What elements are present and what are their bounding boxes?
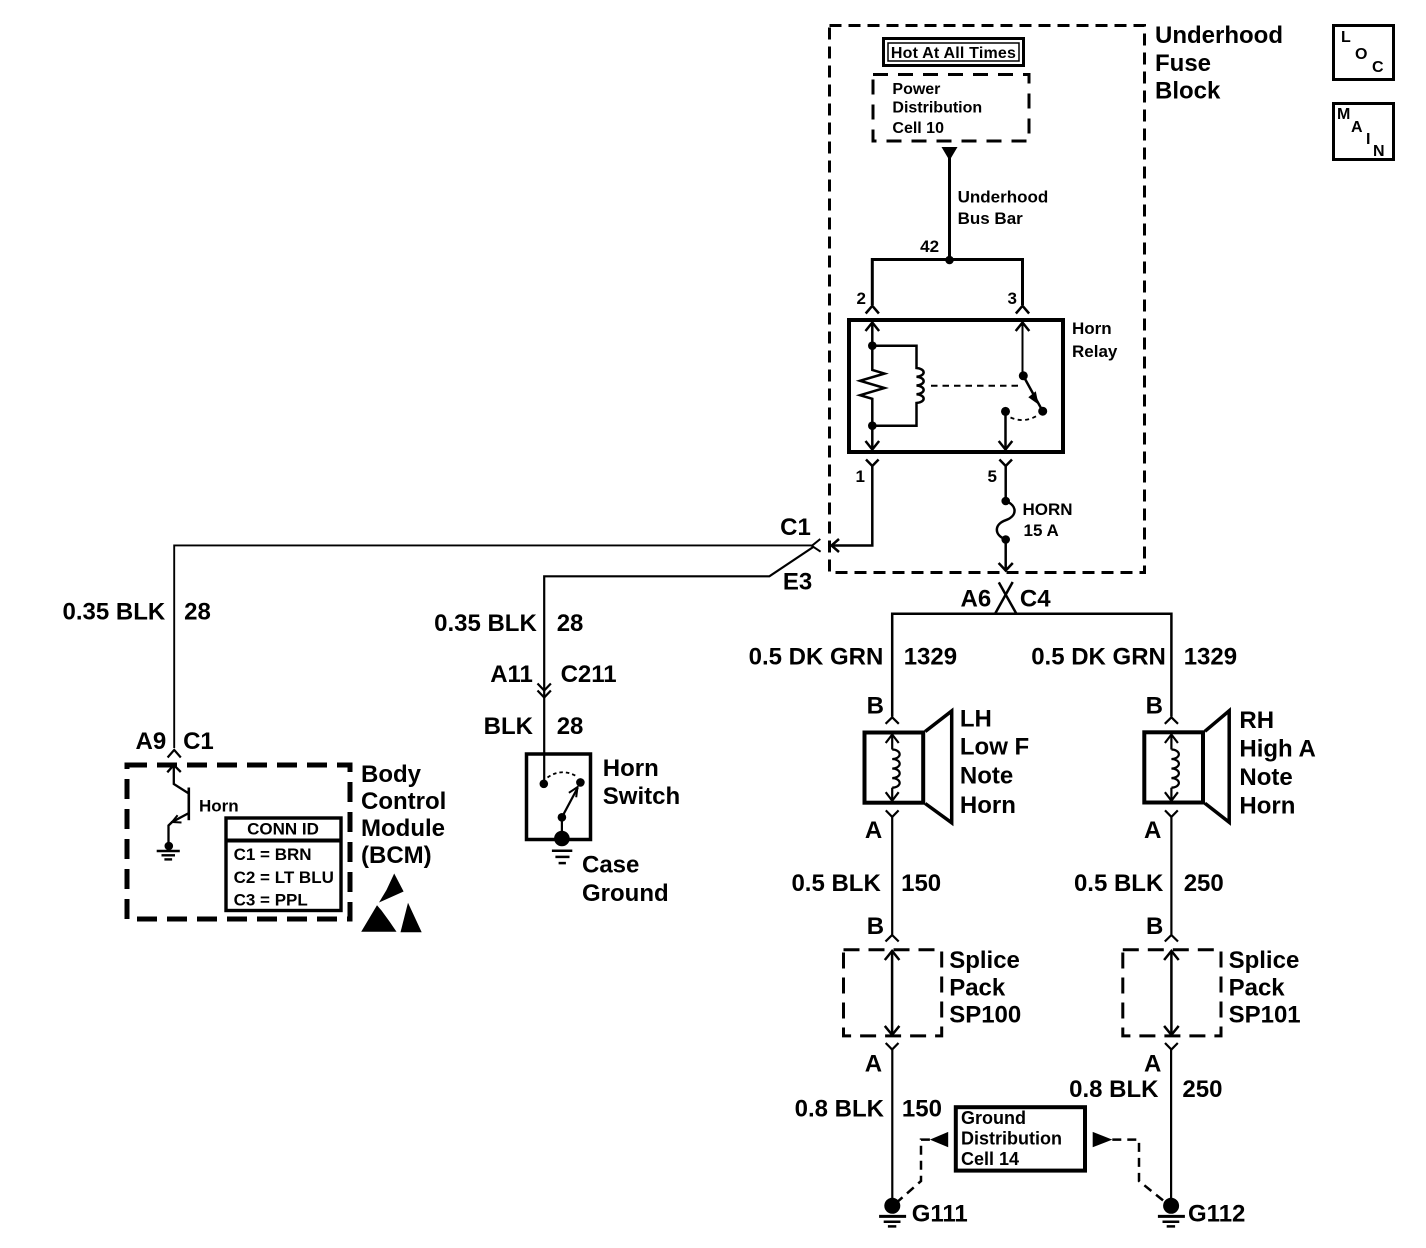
wire pin1 to C1 arrow bbox=[832, 466, 873, 552]
svg-text:I: I bbox=[1366, 131, 1370, 148]
svg-text:G112: G112 bbox=[1188, 1201, 1245, 1228]
BCM internal arrow up bbox=[167, 765, 181, 772]
svg-text:250: 250 bbox=[1184, 870, 1224, 897]
label Underhood Fuse Block bbox=[1155, 22, 1283, 105]
connector A SP101 Y bbox=[1165, 1043, 1178, 1050]
label 0.5 BLK 150 bbox=[791, 870, 941, 897]
ground BCM internal bbox=[157, 842, 180, 860]
connector pin 3 chevron bbox=[1016, 306, 1029, 314]
relay pin2 internal arrow up bbox=[866, 323, 880, 347]
svg-text:Low F: Low F bbox=[960, 733, 1029, 760]
svg-text:Relay: Relay bbox=[1072, 342, 1118, 361]
connector C1 chevron bbox=[812, 539, 821, 552]
ground case ground dot bbox=[552, 831, 572, 863]
label B at SP100 bbox=[867, 913, 884, 940]
svg-text:C4: C4 bbox=[1020, 585, 1051, 612]
connector pin 2 chevron bbox=[866, 306, 879, 314]
horn RH High A Note bbox=[1144, 711, 1229, 823]
svg-text:0.5 DK GRN: 0.5 DK GRN bbox=[749, 643, 884, 670]
dashed leader to G111 bbox=[895, 1140, 930, 1204]
label Splice Pack SP101 bbox=[1229, 947, 1301, 1028]
svg-text:Cell 14: Cell 14 bbox=[961, 1149, 1019, 1169]
wire BCM to C1 bbox=[174, 545, 812, 748]
svg-text:Note: Note bbox=[1239, 764, 1292, 791]
relay switch travel dashed arc bbox=[1011, 416, 1038, 421]
label C1 at fuse block bbox=[780, 514, 811, 541]
battery feed triangle bbox=[942, 147, 958, 161]
svg-text:150: 150 bbox=[902, 1096, 942, 1123]
horn switch box bbox=[527, 754, 591, 840]
label HORN 15 A bbox=[1023, 500, 1073, 540]
label B at RH horn bbox=[1146, 693, 1163, 720]
inductor relay coil winding bbox=[872, 346, 923, 426]
horn switch contact dots bbox=[540, 752, 585, 788]
label B at SP101 bbox=[1146, 913, 1163, 940]
svg-text:0.8 BLK: 0.8 BLK bbox=[1069, 1076, 1159, 1103]
ground G111 bbox=[879, 1198, 906, 1227]
svg-text:15 A: 15 A bbox=[1024, 521, 1059, 540]
underhood fuse block dashed box bbox=[830, 26, 1145, 573]
label 0.5 DK GRN 1329 right bbox=[1031, 643, 1237, 670]
ground G112 bbox=[1158, 1198, 1185, 1227]
svg-text:28: 28 bbox=[557, 610, 584, 637]
svg-text:Switch: Switch bbox=[603, 783, 680, 810]
LOC reference box bbox=[1334, 26, 1394, 80]
node relay coil bottom dot bbox=[868, 421, 877, 430]
svg-text:B: B bbox=[1146, 693, 1163, 720]
svg-text:28: 28 bbox=[557, 713, 584, 740]
svg-text:Pack: Pack bbox=[949, 974, 1006, 1001]
svg-text:A: A bbox=[1144, 1050, 1161, 1077]
wire pin5 to fuse bbox=[1004, 466, 1007, 501]
MAIN reference box bbox=[1334, 104, 1394, 161]
splice SP101 internal double arrow bbox=[1164, 951, 1179, 1035]
svg-text:HORN: HORN bbox=[1023, 500, 1073, 519]
svg-text:SP100: SP100 bbox=[949, 1001, 1021, 1028]
splice SP100 internal double arrow bbox=[885, 951, 900, 1035]
label Underhood Bus Bar bbox=[958, 188, 1049, 228]
svg-text:5: 5 bbox=[988, 467, 997, 486]
CONN ID table bbox=[226, 818, 341, 911]
label C4 bbox=[1020, 585, 1051, 612]
svg-text:Ground: Ground bbox=[582, 880, 669, 907]
ground distribution left arrow triangle bbox=[930, 1132, 948, 1147]
svg-text:0.8 BLK: 0.8 BLK bbox=[795, 1096, 885, 1123]
svg-text:N: N bbox=[1373, 143, 1385, 160]
label A11 C211 bbox=[490, 661, 616, 688]
label A at SP100 bbox=[865, 1050, 882, 1077]
fuse HORN 15A bbox=[997, 497, 1015, 544]
svg-text:L: L bbox=[1341, 29, 1351, 46]
svg-text:Splice: Splice bbox=[1229, 947, 1300, 974]
label Case Ground bbox=[582, 852, 669, 907]
splice pack SP100 dashed box bbox=[844, 950, 942, 1036]
label pin 3 bbox=[1008, 289, 1017, 308]
svg-text:Power: Power bbox=[892, 81, 940, 98]
svg-text:A: A bbox=[1351, 119, 1363, 136]
relay switch blade bbox=[1023, 376, 1042, 411]
svg-text:A9: A9 bbox=[136, 728, 167, 755]
svg-text:C1 = BRN: C1 = BRN bbox=[234, 845, 312, 864]
label RH High A Note Horn bbox=[1239, 707, 1315, 820]
svg-text:Body: Body bbox=[361, 761, 422, 788]
svg-text:O: O bbox=[1355, 46, 1367, 63]
wire fuse to fuse block edge arrow down bbox=[999, 540, 1013, 571]
svg-text:BLK: BLK bbox=[484, 713, 534, 740]
svg-text:3: 3 bbox=[1008, 289, 1017, 308]
svg-text:LH: LH bbox=[960, 705, 992, 732]
connector A SP100 Y bbox=[886, 1043, 899, 1050]
wire bus horizontal with drops to pins 2 and 3 bbox=[872, 260, 1022, 306]
horn switch blade bbox=[558, 787, 578, 822]
resistor relay coil shunt bbox=[860, 346, 884, 426]
ground distribution right arrow triangle bbox=[1093, 1132, 1113, 1147]
svg-text:Underhood: Underhood bbox=[1155, 22, 1283, 49]
wire SP101 to G112 bbox=[1170, 1050, 1172, 1205]
label 0.35 BLK 28 middle bbox=[434, 610, 583, 637]
relay pin5 internal arrow down bbox=[999, 411, 1013, 449]
svg-text:Horn: Horn bbox=[199, 797, 239, 816]
wire blade to case ground bbox=[561, 817, 563, 837]
BCM dashed box bbox=[127, 765, 350, 919]
wire horn switch to E3 bbox=[544, 547, 814, 753]
svg-text:Control: Control bbox=[361, 788, 446, 815]
svg-text:A6: A6 bbox=[961, 585, 992, 612]
wire SP100 to G111 bbox=[891, 1050, 893, 1205]
svg-text:A: A bbox=[865, 1050, 882, 1077]
label Horn Switch bbox=[603, 755, 680, 810]
label B at LH horn bbox=[867, 693, 884, 720]
Hot At All Times box bbox=[884, 39, 1024, 66]
label Body Control Module (BCM) bbox=[361, 761, 446, 869]
svg-text:0.5 DK GRN: 0.5 DK GRN bbox=[1031, 643, 1166, 670]
svg-text:Horn: Horn bbox=[1239, 793, 1295, 820]
node bus junction dot bbox=[945, 256, 954, 265]
svg-text:Pack: Pack bbox=[1229, 974, 1286, 1001]
label 0.5 BLK 250 bbox=[1074, 870, 1224, 897]
svg-text:Cell 10: Cell 10 bbox=[892, 120, 944, 137]
label A at LH horn bbox=[865, 817, 882, 844]
svg-text:0.5 BLK: 0.5 BLK bbox=[791, 870, 881, 897]
label 42 bbox=[920, 237, 939, 256]
wire RH horn to splice SP101 bbox=[1170, 817, 1172, 935]
svg-text:Fuse: Fuse bbox=[1155, 50, 1211, 77]
svg-text:C211: C211 bbox=[561, 661, 617, 688]
splice pack SP101 dashed box bbox=[1123, 950, 1221, 1036]
svg-text:A: A bbox=[1144, 817, 1161, 844]
connector A9 chevron bbox=[168, 750, 181, 758]
wire underhood bus bar vertical bbox=[948, 155, 951, 260]
label G112 bbox=[1188, 1201, 1245, 1228]
connector pin 5 Y bbox=[999, 460, 1012, 467]
svg-text:1329: 1329 bbox=[904, 643, 957, 670]
node relay coil top dot bbox=[868, 341, 877, 350]
connector B SP100 chevron bbox=[886, 935, 899, 942]
horn LH Low F Note bbox=[865, 711, 952, 823]
connector pin 1 Y bbox=[866, 460, 879, 467]
svg-text:(BCM): (BCM) bbox=[361, 842, 432, 869]
label 0.5 DK GRN 1329 left bbox=[749, 643, 957, 670]
svg-text:B: B bbox=[867, 693, 884, 720]
svg-text:A11: A11 bbox=[490, 661, 533, 688]
svg-text:G111: G111 bbox=[912, 1201, 968, 1228]
node relay switch stationary contact dot bbox=[1001, 407, 1010, 416]
label pin 5 bbox=[988, 467, 997, 486]
svg-text:Case: Case bbox=[582, 852, 639, 879]
svg-text:Horn: Horn bbox=[1072, 319, 1112, 338]
ESD warning symbol bbox=[361, 874, 422, 933]
svg-text:Module: Module bbox=[361, 815, 445, 842]
label 0.35 BLK 28 left bbox=[62, 598, 210, 625]
relay box Horn Relay bbox=[849, 320, 1063, 452]
connector A6 C4 X symbol bbox=[995, 582, 1017, 614]
label Horn Relay bbox=[1072, 319, 1118, 361]
relay pin3 internal arrow up and wire to pivot bbox=[1016, 323, 1030, 376]
connector A RH horn Y bbox=[1165, 810, 1178, 817]
svg-text:Horn: Horn bbox=[960, 792, 1016, 819]
svg-text:Hot At All Times: Hot At All Times bbox=[891, 45, 1016, 62]
svg-text:C3 = PPL: C3 = PPL bbox=[234, 891, 308, 910]
dashed leader to G112 bbox=[1112, 1140, 1167, 1204]
svg-text:Ground: Ground bbox=[961, 1108, 1026, 1128]
svg-text:E3: E3 bbox=[783, 569, 812, 596]
svg-text:0.35 BLK: 0.35 BLK bbox=[62, 598, 165, 625]
label E3 at fuse block bbox=[783, 569, 812, 596]
svg-text:M: M bbox=[1337, 106, 1350, 123]
wire LH horn to splice SP100 bbox=[891, 817, 893, 935]
connector A LH horn Y bbox=[886, 810, 899, 817]
svg-text:28: 28 bbox=[184, 598, 211, 625]
label A9 C1 bbox=[136, 728, 214, 755]
svg-text:C: C bbox=[1372, 59, 1384, 76]
svg-text:A: A bbox=[865, 817, 882, 844]
svg-text:High A: High A bbox=[1239, 735, 1315, 762]
relay dashed actuation link bbox=[931, 385, 1018, 387]
label G111 bbox=[912, 1201, 968, 1228]
svg-text:C1: C1 bbox=[780, 514, 811, 541]
label Splice Pack SP100 bbox=[949, 947, 1021, 1028]
connector B LH horn chevron bbox=[886, 717, 899, 724]
svg-text:150: 150 bbox=[901, 870, 941, 897]
connector B RH horn chevron bbox=[1165, 717, 1178, 724]
label Horn at transistor bbox=[199, 797, 239, 816]
svg-text:1: 1 bbox=[856, 467, 865, 486]
svg-text:Bus Bar: Bus Bar bbox=[958, 209, 1024, 228]
label 0.8 BLK 250 bbox=[1069, 1076, 1222, 1103]
label BLK 28 bbox=[484, 713, 584, 740]
svg-text:Distribution: Distribution bbox=[892, 100, 982, 117]
svg-text:0.35 BLK: 0.35 BLK bbox=[434, 610, 537, 637]
horn switch travel dashed arc bbox=[548, 772, 578, 777]
connector A11 C211 double chevron bbox=[538, 684, 551, 698]
label A at RH horn bbox=[1144, 817, 1161, 844]
svg-text:RH: RH bbox=[1239, 707, 1274, 734]
svg-text:2: 2 bbox=[857, 289, 866, 308]
ground distribution cell 14 box bbox=[956, 1107, 1085, 1170]
svg-text:Underhood: Underhood bbox=[958, 188, 1049, 207]
node relay switch pivot dot bbox=[1019, 371, 1028, 380]
svg-text:Splice: Splice bbox=[949, 947, 1020, 974]
svg-text:C2 = LT BLU: C2 = LT BLU bbox=[234, 868, 334, 887]
svg-text:Note: Note bbox=[960, 763, 1013, 790]
power distribution cell 10 box bbox=[873, 75, 1029, 142]
node relay switch blade end dot bbox=[1038, 407, 1047, 416]
connector B SP101 chevron bbox=[1165, 935, 1178, 942]
svg-text:B: B bbox=[1146, 913, 1163, 940]
svg-text:42: 42 bbox=[920, 237, 939, 256]
svg-text:SP101: SP101 bbox=[1229, 1001, 1301, 1028]
relay pin1 internal arrow down bbox=[866, 426, 880, 450]
label A6 bbox=[961, 585, 992, 612]
label A at SP101 bbox=[1144, 1050, 1161, 1077]
svg-text:B: B bbox=[867, 913, 884, 940]
svg-text:Horn: Horn bbox=[603, 755, 659, 782]
svg-text:250: 250 bbox=[1182, 1076, 1222, 1103]
svg-text:C1: C1 bbox=[183, 728, 214, 755]
svg-text:Distribution: Distribution bbox=[961, 1129, 1062, 1149]
svg-text:CONN ID: CONN ID bbox=[247, 820, 319, 839]
svg-text:0.5 BLK: 0.5 BLK bbox=[1074, 870, 1164, 897]
label 0.8 BLK 150 bbox=[795, 1096, 942, 1123]
wire horn feed split bbox=[892, 614, 1171, 717]
svg-text:1329: 1329 bbox=[1184, 643, 1237, 670]
wire transistor to BCM ground bbox=[169, 822, 173, 843]
label LH Low F Note Horn bbox=[960, 705, 1029, 819]
label pin 2 bbox=[857, 289, 866, 308]
label pin 1 bbox=[856, 467, 865, 486]
svg-text:Block: Block bbox=[1155, 78, 1221, 105]
transistor horn driver bbox=[172, 765, 189, 823]
